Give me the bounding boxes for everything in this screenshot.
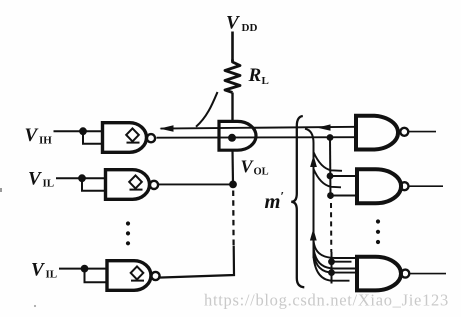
- label V_IL (row 2): [28, 169, 54, 190]
- junction dot load gate 3 input a: [328, 258, 335, 265]
- load NAND gate 1: [356, 116, 398, 150]
- svg-text:m: m: [265, 191, 281, 213]
- svg-text:IL: IL: [46, 269, 58, 281]
- s-curve from bus 1 to load gate 2 bottom input: [314, 169, 342, 187]
- label R_L: [248, 65, 269, 87]
- output bubble gate 3: [151, 272, 159, 280]
- wire V_IH to gate 1 input: [54, 130, 103, 132]
- OC diamond symbol gate 3: [131, 266, 144, 280]
- output bubble load gate 2: [401, 182, 409, 190]
- svg-text:V: V: [226, 13, 240, 34]
- branch wire to gate 2 second input: [82, 178, 106, 191]
- OC diamond symbol gate 1: [126, 128, 139, 142]
- load gate 2 bottom input wire: [331, 195, 358, 197]
- load NAND gate 2: [357, 169, 401, 203]
- node wire down from wired-AND to driver 2 output: [231, 150, 234, 184]
- load gate 3 input stub e: [333, 280, 350, 282]
- fan-in arc 2 to load gate 3: [314, 245, 335, 269]
- label V_IL (row 3): [31, 260, 57, 281]
- wired-AND symbol: [219, 121, 256, 150]
- arrowhead on wire A pointing left at driver 1 output: [160, 125, 174, 131]
- up arrowhead on bus line 1 (upper): [310, 155, 317, 167]
- bus line 2 lower segment: [331, 252, 333, 284]
- junction dot gate 1 input split: [79, 127, 87, 135]
- svg-text:DD: DD: [242, 22, 258, 34]
- dashed segment of bus line 2: [330, 203, 332, 252]
- svg-text:V: V: [241, 157, 255, 177]
- bus line 1 from wire A down to load gate 3: [305, 129, 314, 258]
- fan-in arc 4 to load gate 3: [314, 257, 334, 281]
- label V_IH: [25, 125, 53, 147]
- OC diamond symbol gate 2: [129, 175, 142, 189]
- branch wire to gate 3 second input: [85, 269, 108, 283]
- brace m': [291, 116, 304, 287]
- node wire solid segment to driver 3 row: [158, 246, 234, 278]
- open-collector NAND driver gate 2: [106, 170, 150, 200]
- svg-text:IH: IH: [39, 135, 52, 147]
- junction dot at driver 2 output: [229, 181, 237, 189]
- svg-text:R: R: [248, 65, 262, 86]
- wire resistor to wired-AND node: [231, 93, 233, 123]
- wire gate 2 output to node: [158, 183, 231, 185]
- load gate 3 input stub c: [335, 268, 357, 270]
- load gate 3 input stub b: [332, 261, 352, 263]
- wire V_IL to gate 2 input: [56, 177, 106, 179]
- output wire load gate 3: [409, 273, 446, 275]
- arrowhead on wire A pointing left near load gates: [317, 124, 331, 130]
- svg-text:V: V: [25, 125, 39, 146]
- svg-text:OL: OL: [254, 167, 269, 178]
- svg-text:https://blog.csdn.net/Xiao_Jie: https://blog.csdn.net/Xiao_Jie123: [204, 291, 449, 310]
- junction dot at V_OL node: [228, 134, 236, 142]
- label V_OL: [241, 157, 269, 178]
- junction dot bus 2 at wire B: [327, 134, 334, 141]
- current-flow curve from resistor to node wire A: [196, 92, 218, 127]
- junction dot load gate 2 top input: [327, 173, 334, 180]
- output bubble gate 2: [150, 181, 158, 189]
- output bubble load gate 1: [400, 128, 408, 136]
- wire V_IL to gate 3 input: [59, 268, 107, 270]
- open-collector NAND driver gate 3: [107, 261, 151, 291]
- junction dot gate 3 input split: [81, 265, 89, 273]
- ellipsis between load gates: [376, 219, 380, 244]
- branch wire to gate 1 second input: [83, 131, 103, 144]
- s-curve from bus 1 to load gate 2 top input: [314, 152, 343, 171]
- svg-text:IL: IL: [43, 178, 55, 190]
- junction dot gate 2 input split: [78, 174, 86, 182]
- ellipsis between driver gates: [126, 221, 130, 245]
- open-collector NAND driver gate 1: [103, 123, 147, 153]
- up arrowhead on bus line 1 (lower): [310, 229, 317, 241]
- svg-text:L: L: [262, 75, 269, 87]
- output bubble load gate 3: [401, 270, 409, 278]
- load gate 2 top input wire: [330, 175, 357, 177]
- load gate 3 input stub a: [335, 257, 357, 259]
- scan speck left edge: [0, 188, 2, 192]
- fan-in arc 3 to load gate 3: [314, 251, 334, 273]
- output bubble gate 1: [147, 134, 155, 142]
- fan-in arc 1 to load gate 3: [314, 239, 336, 258]
- dashed continuation of node wire: [232, 191, 235, 247]
- output wire load gate 1: [408, 131, 436, 133]
- label V_DD: [226, 13, 257, 35]
- svg-text:′: ′: [281, 189, 285, 204]
- bus line 2 upper segment: [329, 138, 332, 200]
- svg-text:V: V: [28, 169, 42, 190]
- output wire load gate 2: [409, 185, 444, 187]
- node wire A (upper wire to load gate 1 top input): [161, 127, 357, 129]
- scan speck bottom left: [34, 305, 36, 307]
- junction dot load gate 2 bottom input: [327, 192, 334, 199]
- load NAND gate 3: [357, 257, 401, 291]
- svg-text:V: V: [31, 260, 45, 281]
- junction dot load gate 3 input b: [328, 269, 335, 276]
- label m': [265, 189, 285, 214]
- load gate 3 input stub d: [332, 272, 357, 274]
- resistor R_L: [225, 60, 240, 93]
- node wire B (driver 1 output to load gate 1 bottom input): [157, 136, 357, 139]
- wire V_DD to resistor: [231, 32, 234, 62]
